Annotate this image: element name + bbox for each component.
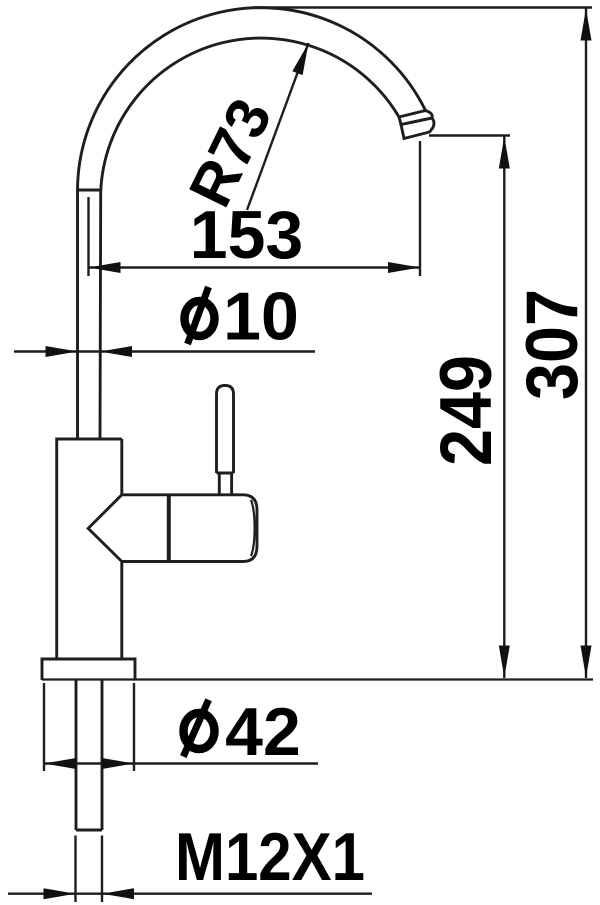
svg-text:42: 42 [225, 694, 301, 770]
svg-text:M12X1: M12X1 [175, 819, 365, 895]
svg-text:249: 249 [426, 355, 507, 466]
svg-text:307: 307 [512, 289, 593, 400]
svg-text:10: 10 [223, 279, 299, 355]
svg-text:153: 153 [190, 197, 303, 273]
